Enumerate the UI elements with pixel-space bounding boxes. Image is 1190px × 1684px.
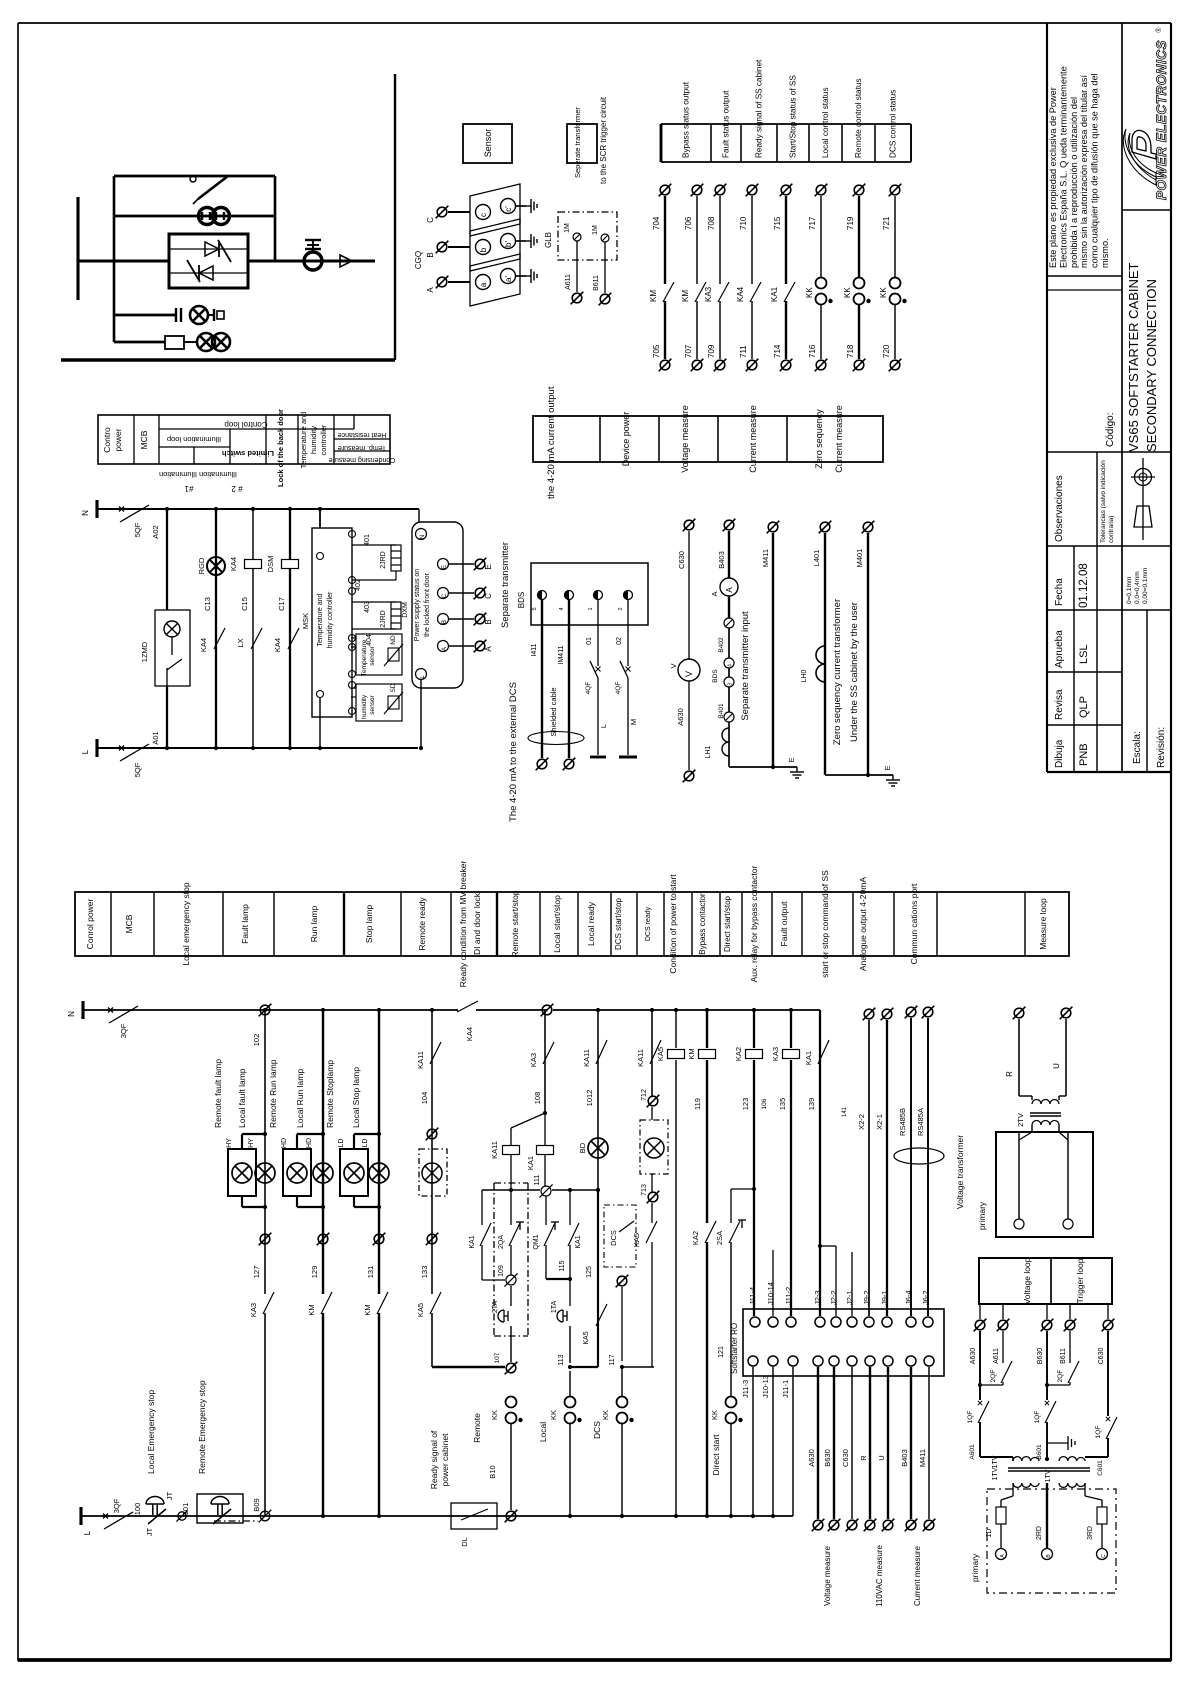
wire (726, 714, 732, 720)
svg-text:1QF: 1QF (1034, 1411, 1041, 1424)
svg-text:KA2: KA2 (734, 1047, 743, 1061)
svg-text:KA5: KA5 (656, 1047, 665, 1061)
wire (1018, 1132, 1020, 1219)
svg-text:Tolerancias (salvo indicación: Tolerancias (salvo indicación (1100, 460, 1107, 543)
svg-text:B403: B403 (717, 551, 726, 569)
wire (675, 1060, 677, 1516)
wire (910, 1018, 912, 1316)
box (356, 684, 402, 721)
wire (1012, 1457, 1014, 1461)
svg-text:QLP: QLP (1078, 696, 1090, 718)
svg-text:713: 713 (641, 1184, 648, 1196)
svg-text:104: 104 (420, 1092, 429, 1105)
wire (664, 196, 666, 284)
svg-text:J10-14: J10-14 (766, 1282, 775, 1305)
wire (351, 696, 356, 698)
remote emergency button (211, 1497, 231, 1525)
wire (166, 509, 168, 610)
wire (241, 1196, 243, 1207)
wire (496, 892, 498, 956)
svg-text:Aprueba: Aprueba (1054, 630, 1065, 668)
terminal (905, 1519, 918, 1532)
svg-text:A: A (725, 587, 734, 593)
contact 2QF (1068, 1361, 1079, 1383)
svg-text:power: power (113, 428, 123, 451)
svg-text:C: C (484, 593, 493, 599)
svg-text:B10: B10 (488, 1465, 497, 1478)
svg-text:A630: A630 (676, 708, 685, 726)
pushbutton KK remote (506, 1397, 517, 1424)
wire (1047, 609, 1171, 611)
svg-text:KA5: KA5 (583, 1331, 590, 1344)
circle (416, 669, 427, 680)
svg-text:J6-2: J6-2 (921, 1290, 930, 1305)
coil (245, 560, 262, 569)
svg-text:J6-4: J6-4 (904, 1290, 913, 1305)
junction (430, 1008, 434, 1012)
wire (621, 1287, 623, 1361)
svg-text:711: 711 (739, 345, 748, 358)
wire (265, 415, 267, 464)
circle (476, 240, 491, 255)
terminal (812, 1519, 825, 1532)
svg-text:A630: A630 (807, 1449, 816, 1467)
junction (251, 507, 255, 511)
wire (731, 1188, 754, 1190)
junction (165, 746, 169, 750)
wire (449, 563, 474, 565)
svg-text:135: 135 (778, 1098, 787, 1111)
junction (568, 1365, 572, 1369)
pushbutton KK 717 (816, 278, 827, 305)
wire (675, 1010, 677, 1048)
svg-text:Ready signal of: Ready signal of (429, 1430, 439, 1489)
wire (1047, 671, 1122, 673)
wire (431, 1010, 433, 1294)
SS terminal J9-2 (864, 1317, 874, 1327)
svg-text:JT: JT (145, 1527, 154, 1536)
svg-text:KM: KM (363, 1304, 372, 1315)
junction (263, 1008, 267, 1012)
wire (979, 1422, 981, 1457)
terminal (723, 519, 736, 532)
wire (481, 1245, 483, 1280)
wire (1058, 1096, 1060, 1100)
circle (501, 234, 516, 249)
svg-text:Revisión:: Revisión: (1156, 727, 1167, 768)
svg-text:Power supply status on: Power supply status on (414, 569, 421, 641)
junction (771, 1514, 775, 1518)
wire (785, 301, 787, 359)
wire (852, 892, 854, 956)
svg-text:B403: B403 (900, 1449, 909, 1467)
wire (546, 1278, 570, 1280)
svg-text:721: 721 (882, 216, 891, 230)
wire (391, 608, 401, 610)
wire (450, 892, 452, 956)
wire (296, 1134, 298, 1149)
svg-text:I411: I411 (531, 643, 538, 656)
terminal (881, 1008, 894, 1021)
svg-text:3: 3 (728, 683, 734, 686)
svg-text:Temperature and: Temperature and (317, 593, 324, 646)
terminal (863, 1008, 876, 1021)
button 2TA (498, 1310, 508, 1322)
SS terminal bottom (924, 1356, 934, 1366)
box (283, 1149, 311, 1196)
breaker (119, 744, 149, 761)
wire (590, 756, 606, 759)
svg-text:b': b' (504, 241, 513, 247)
wire (738, 1219, 746, 1221)
wire (658, 416, 660, 462)
wire (159, 428, 354, 430)
svg-text:DCS control status: DCS control status (889, 90, 898, 158)
wire (297, 1133, 323, 1135)
SS terminal J10-14 (768, 1317, 778, 1327)
wire (663, 892, 665, 956)
wire (400, 892, 402, 956)
wire (1046, 23, 1048, 772)
circle (501, 199, 516, 214)
svg-text:a: a (479, 282, 488, 287)
wire (1101, 1500, 1103, 1507)
contact KA5 (430, 1292, 441, 1314)
svg-text:3RD: 3RD (1087, 1526, 1094, 1540)
svg-text:M401: M401 (855, 549, 864, 568)
svg-text:716: 716 (808, 344, 817, 358)
svg-text:1TA: 1TA (551, 1301, 558, 1314)
junction (596, 1188, 600, 1192)
svg-text:V: V (669, 663, 678, 668)
svg-text:3QF: 3QF (112, 1498, 121, 1513)
wire (771, 892, 773, 956)
button QM1 (544, 1223, 555, 1246)
svg-text:KA3: KA3 (529, 1053, 538, 1067)
wire (621, 1367, 623, 1396)
svg-text:BD: BD (578, 1142, 587, 1153)
SS terminal J2-1 (847, 1317, 857, 1327)
svg-text:108: 108 (533, 1092, 542, 1105)
svg-text:Limited switch: Limited switch (222, 449, 275, 458)
svg-text:prohibida l a reproducción o u: prohibida l a reproducción o utilización… (1069, 97, 1079, 268)
svg-text:2QF: 2QF (1057, 1370, 1064, 1383)
pushbutton KK DCS (617, 1397, 628, 1424)
pushbutton KK 721 (890, 278, 901, 305)
terminal (864, 1519, 877, 1532)
wire (696, 301, 698, 359)
door status panel (412, 522, 463, 688)
box (228, 1149, 256, 1196)
wire (494, 1182, 528, 1184)
svg-text:DCS: DCS (609, 1230, 618, 1246)
svg-text:QM1: QM1 (533, 1234, 540, 1249)
contact KA4 (750, 282, 761, 302)
terminal (647, 1095, 660, 1108)
wire (384, 644, 403, 666)
svg-text:A: A (426, 287, 435, 293)
wire (621, 1424, 623, 1516)
wire (868, 1020, 870, 1316)
wire B403 (910, 1367, 912, 1519)
junction (568, 1514, 572, 1518)
svg-text:2QF: 2QF (990, 1370, 997, 1383)
junction (674, 1008, 678, 1012)
wire (391, 615, 401, 617)
lamp 713 (644, 1138, 664, 1158)
svg-text:contraria): contraria) (1108, 516, 1115, 543)
svg-text:IM411: IM411 (558, 645, 565, 664)
contact KA3 (263, 1292, 274, 1314)
wire (1107, 1438, 1109, 1457)
terminal (616, 1275, 629, 1288)
svg-text:705: 705 (652, 344, 661, 358)
svg-text:HY: HY (248, 1138, 255, 1148)
coil KA5 (668, 1050, 685, 1059)
svg-text:01: 01 (586, 637, 593, 645)
svg-text:L: L (599, 724, 608, 728)
wire (825, 774, 868, 776)
svg-text:U: U (877, 1455, 886, 1460)
svg-text:KA5: KA5 (632, 1233, 641, 1247)
wire (289, 509, 291, 748)
terminal 719 (853, 184, 866, 197)
wire (515, 240, 526, 242)
terminal (474, 613, 487, 626)
wire (688, 531, 690, 659)
wire (710, 124, 712, 162)
svg-text:A611: A611 (565, 274, 572, 290)
wire (569, 1245, 571, 1279)
svg-text:humidity: humidity (361, 694, 368, 719)
junction (620, 1514, 624, 1518)
svg-text:0,00=0,1mm: 0,00=0,1mm (1142, 568, 1149, 604)
wire (851, 1252, 853, 1316)
svg-text:Bypass status output: Bypass status output (682, 81, 691, 158)
svg-text:107: 107 (494, 1352, 501, 1363)
terminal 708 (714, 184, 727, 197)
box (388, 696, 399, 709)
svg-text:the locked front door: the locked front door (424, 572, 431, 636)
terminal (474, 558, 487, 571)
svg-text:J11-2: J11-2 (784, 1287, 793, 1305)
wire (1046, 1483, 1048, 1548)
wire (448, 281, 470, 283)
wire (158, 415, 160, 464)
svg-text:B09: B09 (252, 1498, 261, 1511)
svg-text:L401: L401 (812, 550, 821, 567)
wire L401 (824, 533, 826, 775)
wire IM411 (568, 599, 570, 758)
wire (1002, 1382, 1004, 1385)
svg-text:start or stop command of SS: start or stop command of SS (820, 870, 830, 978)
wire (980, 1456, 1013, 1458)
svg-text:X2-2: X2-2 (857, 1114, 866, 1130)
svg-text:129: 129 (310, 1266, 319, 1279)
svg-text:720: 720 (882, 344, 891, 358)
contact LX (251, 628, 262, 649)
wire (627, 678, 629, 755)
wire (1019, 1132, 1032, 1140)
box (743, 1309, 944, 1376)
wire (1107, 1304, 1109, 1319)
contact 1QF (978, 1401, 989, 1423)
contact KA11 (596, 1040, 607, 1064)
svg-text:primary: primary (977, 1201, 987, 1230)
junction (321, 1132, 325, 1136)
svg-text:KK: KK (490, 1410, 499, 1420)
svg-text:DCS: DCS (592, 1421, 602, 1439)
svg-text:sensor: sensor (369, 645, 376, 665)
terminal phase A (436, 276, 449, 289)
wire (519, 1222, 521, 1230)
circle (476, 275, 491, 290)
wire (1047, 545, 1171, 547)
contact 4QF (590, 661, 598, 678)
wire (651, 1107, 653, 1120)
svg-text:Local: Local (538, 1422, 548, 1442)
MSK terminal (349, 644, 356, 651)
wire (751, 196, 753, 284)
wire (651, 1010, 653, 1096)
svg-text:709: 709 (707, 344, 716, 358)
SS terminal J2-2 (831, 1317, 841, 1327)
box (558, 212, 617, 260)
wire (577, 892, 579, 956)
wire (772, 1367, 774, 1516)
box (451, 1503, 497, 1529)
junction (377, 1514, 381, 1518)
CT trapezoids (470, 184, 520, 236)
breaker (103, 1512, 133, 1529)
svg-text:Condensing measure: Condensing measure (329, 456, 396, 463)
contact KA3 (718, 282, 729, 302)
wire (305, 248, 321, 250)
wire (1047, 771, 1171, 773)
svg-text:c: c (479, 213, 488, 217)
wire (353, 1134, 355, 1149)
SS terminal bottom (788, 1356, 798, 1366)
fuse (165, 336, 184, 349)
terminal (819, 521, 832, 534)
svg-text:1ZMD: 1ZMD (140, 641, 149, 662)
svg-text:1TV: 1TV (992, 1455, 999, 1468)
wire B611 (604, 242, 606, 293)
svg-text:DCS start/stop: DCS start/stop (614, 897, 623, 950)
circle (476, 205, 491, 220)
svg-text:KM: KM (687, 1048, 696, 1059)
coil KA1 (537, 1146, 554, 1155)
wire (1069, 1382, 1071, 1385)
wire (717, 416, 719, 462)
svg-text:C: C (442, 593, 448, 598)
svg-text:to the SCR trigger circuit: to the SCR trigger circuit (599, 96, 608, 184)
wire (510, 1424, 512, 1510)
box (169, 234, 248, 288)
wire (728, 668, 730, 677)
wire (510, 1326, 512, 1362)
wire (569, 1326, 571, 1363)
wire (1047, 724, 1122, 726)
wire B611 (1069, 1331, 1071, 1363)
svg-text:Conrol power: Conrol power (85, 899, 95, 950)
wire (352, 628, 396, 630)
wire (728, 596, 730, 618)
wire (751, 301, 753, 359)
svg-text:403: 403 (364, 601, 371, 613)
svg-text:KK: KK (601, 1410, 610, 1420)
svg-text:718: 718 (846, 344, 855, 358)
wire (790, 1060, 792, 1316)
svg-text:Remote Run lamp: Remote Run lamp (268, 1059, 278, 1128)
wire (81, 1001, 84, 1019)
svg-text:# 2: # 2 (231, 484, 243, 493)
wire (792, 1367, 794, 1516)
svg-text:X2-1: X2-1 (875, 1114, 884, 1130)
svg-text:Current measure: Current measure (748, 405, 758, 473)
svg-text:M411: M411 (761, 549, 770, 567)
svg-text:MCB: MCB (124, 914, 134, 933)
terminal 711 (746, 359, 759, 372)
wire (352, 544, 396, 546)
ground at B601 (1068, 1436, 1075, 1450)
svg-text:131: 131 (366, 1266, 375, 1279)
svg-text:2TA: 2TA (492, 1301, 499, 1314)
contact 1QF (1106, 1417, 1117, 1439)
terminal (176, 1510, 187, 1521)
wire (198, 176, 228, 199)
svg-text:401: 401 (364, 534, 371, 546)
svg-text:POWER ELECTRONICS: POWER ELECTRONICS (1154, 40, 1169, 200)
svg-text:Contro: Contro (102, 427, 112, 453)
svg-text:KM: KM (307, 1304, 316, 1315)
wire (651, 1174, 653, 1192)
junction (288, 746, 292, 750)
terminal (474, 587, 487, 600)
svg-text:U: U (1052, 1063, 1061, 1069)
svg-text:109: 109 (498, 1265, 505, 1277)
wire (307, 244, 319, 246)
svg-text:J2-2: J2-2 (829, 1290, 838, 1305)
box (75, 892, 1069, 956)
wire (448, 246, 470, 248)
svg-text:115: 115 (559, 1260, 566, 1271)
svg-text:KA11: KA11 (582, 1049, 591, 1067)
box (640, 1120, 668, 1174)
wire (1096, 452, 1098, 772)
svg-text:KM: KM (681, 290, 690, 302)
wire (1046, 1422, 1048, 1461)
wire (334, 438, 390, 440)
wire (820, 196, 822, 278)
svg-text:KM: KM (649, 290, 658, 302)
wire (1101, 1524, 1103, 1548)
wire (420, 680, 422, 748)
terminal (862, 521, 875, 534)
svg-text:B: B (484, 619, 493, 624)
svg-text:C630: C630 (677, 551, 686, 569)
junction (419, 746, 423, 750)
junction (729, 1514, 733, 1518)
svg-text:B611: B611 (1060, 1348, 1067, 1364)
junction (318, 746, 322, 750)
wire (1046, 1457, 1048, 1461)
junction (596, 1008, 600, 1012)
junction (377, 1132, 381, 1136)
terminal phase B (436, 241, 449, 254)
wire (664, 301, 666, 359)
wire (728, 687, 730, 712)
